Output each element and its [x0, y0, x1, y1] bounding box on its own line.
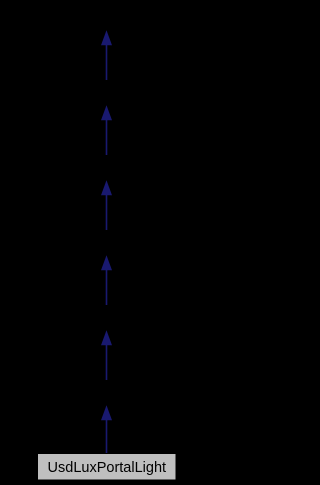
svg-text:UsdLuxPortalLight: UsdLuxPortalLight — [48, 460, 167, 476]
